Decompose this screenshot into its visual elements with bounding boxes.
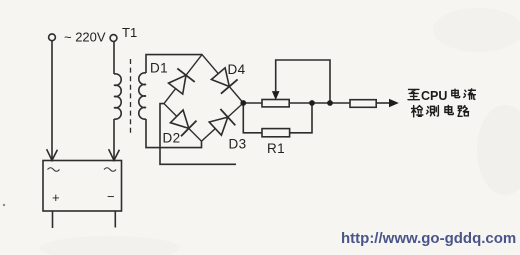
label ~ left inside box [48, 168, 60, 172]
series resistor body [350, 100, 376, 108]
wire right lead lower (primary to load) [113, 119, 115, 159]
wire secondary top to bridge top corner [146, 55, 202, 73]
label to-CPU-current line 1 [408, 89, 475, 103]
wire R1 right branch [290, 106, 312, 133]
wire bridge right corner to potentiometer [243, 102, 262, 104]
junction node wiper tap [327, 100, 333, 106]
wire secondary bottom to bridge bottom corner [146, 119, 202, 148]
wire resistor to output arrow [376, 102, 390, 104]
svg-text:~ 220V: ~ 220V [64, 30, 106, 45]
wire wiper loop [276, 60, 330, 101]
svg-text:http://www.go-gddq.com: http://www.go-gddq.com [341, 230, 516, 247]
output arrow head [389, 99, 399, 107]
diode D4 [211, 68, 237, 94]
wire R1 left branch [243, 106, 262, 133]
diode D3 [209, 109, 235, 135]
arrow into load box right [109, 149, 120, 160]
svg-text:CPU: CPU [421, 89, 447, 103]
potentiometer wiper arrow [273, 92, 279, 100]
wire left lead down to load [51, 41, 53, 159]
junction node at bridge output [240, 100, 246, 106]
junction node R1 right [309, 100, 315, 106]
wire load output right [114, 211, 116, 228]
svg-text:D3: D3 [229, 137, 247, 152]
wire right lead upper (terminal to primary) [113, 42, 115, 75]
label detection-circuit line 2 [412, 105, 469, 116]
svg-text:−: − [107, 189, 115, 204]
transformer T1 secondary winding [139, 73, 146, 119]
svg-text:D4: D4 [228, 62, 246, 77]
diode D1 [169, 68, 195, 94]
transformer T1 primary winding [114, 74, 121, 119]
wire bridge left corner to negative rail [160, 104, 236, 165]
svg-text:+: + [52, 190, 60, 205]
terminal circle right (220V input) [110, 35, 117, 42]
svg-text:T1: T1 [122, 25, 137, 40]
diode D2 [170, 110, 196, 136]
load box (charged device) [43, 161, 122, 212]
transformer core (dashed) [130, 59, 132, 135]
svg-text:R1: R1 [267, 141, 285, 156]
resistor R1 body [262, 129, 290, 137]
arrow into load box left [47, 149, 58, 160]
potentiometer body [262, 100, 289, 107]
label ~ right inside box [104, 168, 116, 172]
bridge diamond wires [164, 55, 243, 142]
svg-text:D1: D1 [150, 61, 168, 76]
wire load output left [52, 211, 54, 228]
wire rail pot to series resistor [289, 102, 350, 104]
svg-text:D2: D2 [163, 131, 181, 146]
terminal circle left (220V input) [49, 34, 56, 41]
